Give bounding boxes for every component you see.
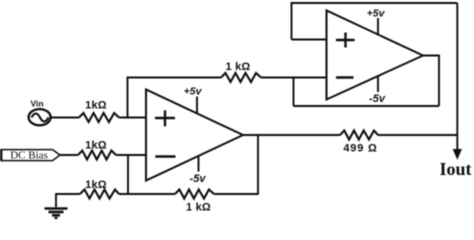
svg-text:1kΩ: 1kΩ bbox=[85, 179, 107, 191]
wire Vin to R1 bbox=[51, 117, 79, 119]
wire top feedback left segment bbox=[127, 77, 221, 79]
svg-text:499 Ω: 499 Ω bbox=[343, 143, 377, 155]
svg-text:Vin: Vin bbox=[30, 99, 43, 109]
wire U2 feedback bottom segment bbox=[294, 105, 440, 107]
svg-text:+5v: +5v bbox=[367, 8, 386, 20]
wire U2 plus input loop: left vertical bbox=[291, 3, 293, 40]
svg-text:1kΩ: 1kΩ bbox=[85, 140, 107, 152]
svg-text:-5v: -5v bbox=[190, 173, 207, 185]
svg-text:Iout: Iout bbox=[439, 159, 471, 179]
svg-text:1 kΩ: 1 kΩ bbox=[226, 61, 251, 73]
svg-text:1kΩ: 1kΩ bbox=[85, 100, 107, 112]
U1 plus symbol bbox=[155, 110, 175, 126]
svg-text:-5v: -5v bbox=[369, 93, 386, 105]
U2 minus symbol bbox=[336, 76, 354, 78]
svg-text:+5v: +5v bbox=[184, 86, 203, 98]
U2 -5v power pin bbox=[377, 77, 379, 93]
resistor R5 1kOhm (bottom feedback) bbox=[175, 190, 214, 199]
resistor R6 499 Ohm bbox=[340, 131, 378, 140]
source Vin (sine source circle) bbox=[29, 109, 51, 125]
resistor R2 1kOhm (DC bias input) bbox=[78, 151, 116, 160]
op-amp U2 (top right) bbox=[327, 11, 424, 100]
wire DC Bias to R2 bbox=[60, 154, 78, 156]
wire U2 top run bbox=[291, 2, 458, 4]
resistor R1 1kOhm (Vin input) bbox=[79, 113, 119, 122]
op-amp U1 (main) bbox=[146, 90, 243, 181]
node A junction vertical (plus input to top feedback wire) bbox=[127, 78, 129, 118]
U1 minus symbol bbox=[155, 155, 175, 157]
svg-text:DC Bias: DC Bias bbox=[10, 150, 48, 162]
wire R5 to output corner bbox=[214, 193, 258, 195]
wire U2 feedback right vertical bbox=[438, 56, 440, 107]
wire R2 to U1 minus input bbox=[116, 154, 146, 156]
node C junction vertical (minus input down to bottom feedback wire) bbox=[127, 155, 129, 194]
resistor R4 1kOhm (top feedback) bbox=[221, 73, 261, 82]
wire R6 to Iout node bbox=[378, 134, 458, 136]
wire R3 to R5 (bottom feedback run) bbox=[119, 193, 175, 195]
U2 +5v power pin bbox=[377, 18, 379, 34]
wire R1 to U1 plus input bbox=[119, 117, 146, 119]
wire right vertical to Iout node bbox=[456, 3, 458, 151]
ground bbox=[45, 194, 68, 218]
resistor R3 1kOhm (ground leg) bbox=[80, 190, 119, 199]
wire bottom feedback up to output bbox=[257, 135, 259, 195]
U2 plus symbol bbox=[336, 33, 355, 48]
U1 -5v power pin bbox=[198, 156, 200, 172]
wire U1 output to Iout node (499 line) bbox=[243, 134, 340, 136]
wire U2 plus input horizontal bbox=[292, 39, 327, 41]
wire ground to R3 bbox=[55, 193, 80, 195]
node B junction vertical (minus wire down to U2 feedback return) bbox=[293, 78, 295, 107]
svg-text:1 kΩ: 1 kΩ bbox=[186, 202, 211, 214]
wire U2 output to feedback bbox=[423, 55, 440, 57]
wire R4 to U2 minus input bbox=[261, 77, 327, 79]
U1 +5v power pin bbox=[196, 97, 198, 114]
Iout arrowhead bbox=[453, 150, 461, 159]
flag DC Bias bbox=[0, 150, 60, 161]
